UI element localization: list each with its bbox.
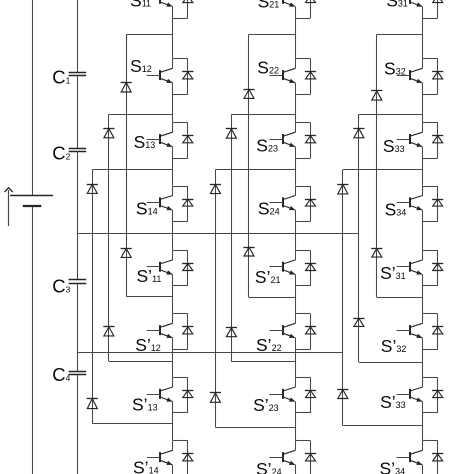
svg-text:C2: C2 xyxy=(52,143,70,164)
svg-text:C3: C3 xyxy=(52,275,70,296)
svg-text:S21: S21 xyxy=(258,0,280,11)
svg-text:S’32: S’32 xyxy=(381,336,407,356)
svg-text:S13: S13 xyxy=(134,132,156,152)
svg-text:S’24: S’24 xyxy=(256,459,282,474)
svg-text:S11: S11 xyxy=(130,0,151,11)
svg-text:S’13: S’13 xyxy=(132,394,158,414)
svg-text:S33: S33 xyxy=(383,136,405,156)
svg-text:S14: S14 xyxy=(136,198,158,218)
svg-text:S’14: S’14 xyxy=(133,457,159,474)
svg-text:S’34: S’34 xyxy=(380,459,406,474)
svg-text:S’12: S’12 xyxy=(135,335,161,355)
svg-text:S31: S31 xyxy=(386,0,408,11)
svg-text:S32: S32 xyxy=(384,58,406,78)
svg-text:S23: S23 xyxy=(256,135,278,155)
svg-text:S24: S24 xyxy=(258,199,280,219)
svg-text:C1: C1 xyxy=(52,66,70,87)
svg-text:S’33: S’33 xyxy=(380,392,406,412)
svg-text:S’23: S’23 xyxy=(253,395,279,415)
svg-text:S’11: S’11 xyxy=(137,266,162,286)
svg-text:C4: C4 xyxy=(52,364,70,385)
svg-text:S’21: S’21 xyxy=(255,267,281,287)
svg-text:S12: S12 xyxy=(130,56,152,76)
svg-text:S’22: S’22 xyxy=(256,335,282,355)
svg-text:S22: S22 xyxy=(257,58,279,78)
